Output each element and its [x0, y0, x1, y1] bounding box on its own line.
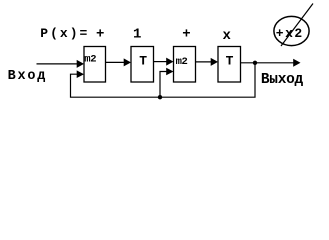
svg-text:P(x)=: P(x)=: [40, 26, 89, 41]
svg-text:+: +: [96, 27, 104, 43]
svg-text:m2: m2: [176, 56, 188, 68]
svg-text:+x2: +x2: [276, 26, 304, 41]
svg-text:1: 1: [133, 27, 141, 43]
svg-text:+: +: [182, 27, 190, 43]
svg-text:m2: m2: [84, 53, 96, 65]
svg-text:T: T: [139, 53, 147, 68]
svg-text:Выход: Выход: [261, 72, 304, 88]
svg-text:x: x: [223, 28, 232, 44]
svg-text:T: T: [226, 53, 234, 68]
svg-text:Вход: Вход: [8, 69, 48, 84]
